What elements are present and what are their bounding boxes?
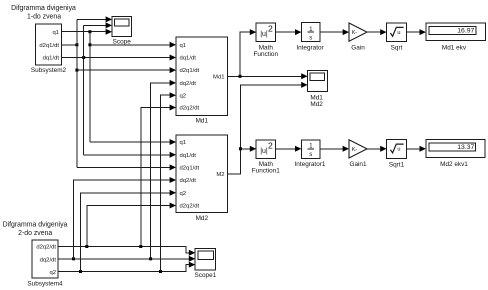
wire branch up to Math Function xyxy=(240,32,250,76)
wire q1: Subsystem2 out1 to Scope in3 xyxy=(62,31,107,33)
svg-text:d2q1/dt: d2q1/dt xyxy=(180,166,200,172)
svg-text:Function: Function xyxy=(254,51,279,58)
wire Integrator to Gain xyxy=(320,31,343,33)
svg-text:16.97: 16.97 xyxy=(457,27,474,34)
wire Gain1 to Sqrt1 xyxy=(367,148,380,150)
scope Md1 Md2 xyxy=(301,71,327,108)
svg-text:Integrator1: Integrator1 xyxy=(295,161,326,168)
svg-text:d2q1/dt: d2q1/dt xyxy=(180,68,200,74)
wire bus V8 dq2/dt vertical to Md1 in4 xyxy=(151,83,170,259)
svg-text:|u|: |u| xyxy=(260,148,268,155)
svg-text:Md1: Md1 xyxy=(196,117,209,124)
wire bus V6 d2q2/dt vertical to Md2 in6 xyxy=(87,206,170,247)
svg-text:Function1: Function1 xyxy=(252,168,281,175)
block Math Function1 |u|2 xyxy=(250,140,280,175)
svg-text:d2q2/dt: d2q2/dt xyxy=(180,106,200,112)
svg-text:Gain: Gain xyxy=(351,44,365,51)
svg-text:2-do zvena: 2-do zvena xyxy=(18,230,52,237)
svg-text:|u|: |u| xyxy=(260,31,268,38)
wire q2: Subsystem4 out3 to Scope1 in3 xyxy=(58,265,190,272)
wire Math Function1 to Integrator1 xyxy=(275,148,295,150)
junction dot V3 to Md1 in1 xyxy=(88,43,91,46)
wire d2q2/dt: Subsystem4 out1 to Scope1 in1 xyxy=(58,247,190,253)
svg-text:d2q1/dt: d2q1/dt xyxy=(39,43,59,49)
wire to Scope in1 xyxy=(77,18,106,20)
junction dot q1 branch xyxy=(88,30,91,33)
junction dot V1 to Md1 in3 xyxy=(75,69,78,72)
gain Gain1 xyxy=(343,140,367,168)
wire dq2/dt: Subsystem4 out2 to Scope1 in2 xyxy=(58,258,190,260)
junction dot d2q2/dt to V6 xyxy=(85,245,88,248)
wire Md2 in2 from V2 xyxy=(84,154,170,156)
svg-text:u: u xyxy=(397,30,400,36)
subsystem Md2 xyxy=(170,135,228,222)
wire Math Function to Integrator xyxy=(275,31,295,33)
svg-text:Sqrt1: Sqrt1 xyxy=(389,161,405,168)
svg-text:q1: q1 xyxy=(180,43,187,49)
junction dot d2q2/dt to V7 xyxy=(139,245,142,248)
subsystem Subsystem4 xyxy=(27,240,63,288)
block Sqrt xyxy=(380,23,406,52)
wire bus V2 dq1/dt vertical xyxy=(83,25,85,154)
wire bus V1 d2q1/dt vertical xyxy=(76,19,78,167)
wire Md2 in3 from V1 xyxy=(77,166,170,168)
wire bus V3 q1 vertical xyxy=(89,32,91,142)
svg-text:q1: q1 xyxy=(52,30,59,36)
wire Md1 out to scope Md1Md2 in1 xyxy=(228,75,302,77)
svg-text:Md2: Md2 xyxy=(310,101,323,108)
junction dot Md1 out branch xyxy=(239,75,242,78)
subsystem Subsystem2 xyxy=(31,24,67,74)
svg-text:Subsystem2: Subsystem2 xyxy=(31,67,67,74)
svg-text:K-: K- xyxy=(352,147,358,153)
wire Sqrt to display Md1 ekv xyxy=(407,31,420,33)
svg-text:Subsystem4: Subsystem4 xyxy=(27,281,63,288)
svg-text:Scope1: Scope1 xyxy=(195,272,217,279)
junction dot dq2/dt to V8 xyxy=(149,257,152,260)
svg-text:Sqrt: Sqrt xyxy=(391,45,403,52)
junction dot q2 to V5 xyxy=(79,270,82,273)
wire bus V9 q2 vertical to Md1 in5 xyxy=(161,95,170,271)
svg-text:Gain1: Gain1 xyxy=(349,161,366,168)
svg-text:dq2/dt: dq2/dt xyxy=(40,257,57,263)
svg-text:dq1/dt: dq1/dt xyxy=(43,56,60,62)
wire bus V5 q2 vertical to Md2 in5 xyxy=(81,193,170,272)
svg-text:d2q2/dt: d2q2/dt xyxy=(180,204,200,210)
svg-text:dq2/dt: dq2/dt xyxy=(180,81,197,87)
svg-text:Md1: Md1 xyxy=(213,74,224,80)
svg-text:s: s xyxy=(309,34,312,41)
block Math Function |u|2 xyxy=(250,23,279,58)
display Md2 ekv1 = 13.37 xyxy=(420,140,486,169)
wire bus V4 dq2/dt vertical to Md2 in4 xyxy=(74,180,170,259)
svg-text:13.37: 13.37 xyxy=(457,144,474,151)
svg-text:M2: M2 xyxy=(216,172,224,178)
svg-text:dq1/dt: dq1/dt xyxy=(180,153,197,159)
svg-text:dq2/dt: dq2/dt xyxy=(180,178,197,184)
block Integrator 1/s xyxy=(295,23,325,52)
svg-text:K-: K- xyxy=(352,30,358,36)
wire bus V7 d2q2/dt vertical to Md1 in6 xyxy=(141,108,170,247)
scope Scope1 xyxy=(189,248,217,278)
wire Md2 out up to scope Md1Md2 in2 xyxy=(228,85,302,174)
svg-text:dq1/dt: dq1/dt xyxy=(180,56,197,62)
svg-text:2: 2 xyxy=(268,24,273,34)
annotation: Difgramma dvigeniya 2-do zvena xyxy=(3,222,68,237)
wire Md2 in1 from V3 xyxy=(90,141,170,143)
svg-text:Md1 ekv: Md1 ekv xyxy=(442,44,467,51)
junction dot dq2/dt to V4 xyxy=(72,257,75,260)
wire Gain to Sqrt xyxy=(367,31,380,33)
svg-text:q2: q2 xyxy=(49,270,56,276)
wire Md1 in3 from V1 xyxy=(77,69,170,71)
gain Gain xyxy=(343,23,367,51)
block Integrator1 1/s xyxy=(295,140,326,168)
wire Md1 in1 from V3 xyxy=(90,44,170,46)
svg-text:q1: q1 xyxy=(180,140,187,146)
wire to Scope in2 xyxy=(84,24,106,26)
svg-text:Integrator: Integrator xyxy=(296,44,324,51)
subsystem Md1 xyxy=(170,37,228,124)
wire dq1/dt: Subsystem2 out3 to Md1 in2 xyxy=(62,57,170,59)
junction dot dq1/dt to V2 xyxy=(82,56,85,59)
svg-text:Md2: Md2 xyxy=(196,215,209,222)
junction dot q2 to V9 xyxy=(159,270,162,273)
svg-text:d2q2/dt: d2q2/dt xyxy=(36,245,56,251)
wire branch to Math Function1 xyxy=(241,148,250,150)
svg-text:q2: q2 xyxy=(180,93,187,99)
junction dot Md2 out branch xyxy=(239,147,242,150)
svg-text:2: 2 xyxy=(268,140,273,150)
scope Scope xyxy=(106,16,132,45)
wire Sqrt1 to display Md2 ekv1 xyxy=(407,148,420,150)
svg-text:s: s xyxy=(309,151,312,158)
block Sqrt1 xyxy=(380,140,406,169)
svg-text:q2: q2 xyxy=(180,191,187,197)
svg-text:Md2 ekv1: Md2 ekv1 xyxy=(440,161,468,168)
svg-text:1-do zvena: 1-do zvena xyxy=(27,13,61,20)
display Md1 ekv = 16.97 xyxy=(420,23,486,51)
annotation: Difgramma dvigeniya 1-do zvena xyxy=(11,5,76,20)
svg-text:u: u xyxy=(397,147,400,153)
svg-text:Difgramma dvigeniya: Difgramma dvigeniya xyxy=(3,222,68,229)
svg-text:Difgramma dvigeniya: Difgramma dvigeniya xyxy=(11,5,76,12)
wire Integrator1 to Gain1 xyxy=(320,148,343,150)
wire d2q1/dt: Subsystem2 out2 to bus V1 xyxy=(62,44,78,46)
junction dot d2q1/dt to V1 xyxy=(75,43,78,46)
